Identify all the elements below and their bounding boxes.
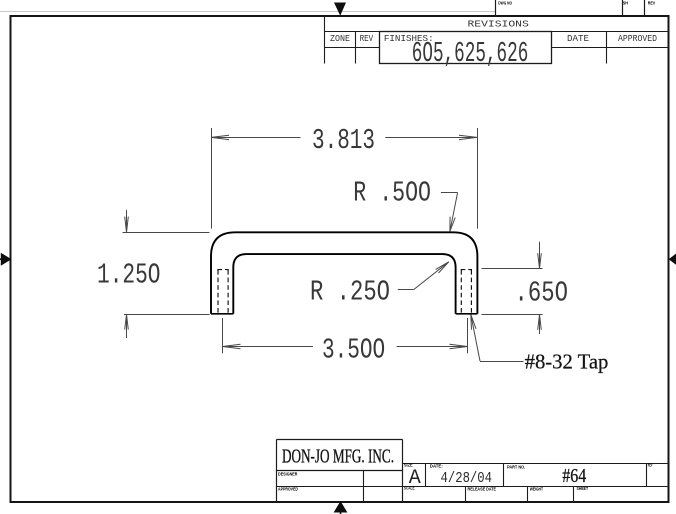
svg-text:REVISIONS: REVISIONS — [468, 19, 529, 29]
svg-text:6O5,625,626: 6O5,625,626 — [412, 37, 529, 70]
left tapped hole (hidden lines) — [217, 270, 228, 314]
svg-text:REV: REV — [648, 1, 656, 7]
right tapped hole (hidden lines) — [461, 270, 472, 314]
svg-text:WEIGHT: WEIGHT — [530, 487, 543, 493]
svg-text:DATE: DATE — [567, 34, 589, 44]
handle outer contour — [211, 232, 477, 313]
right section top line — [403, 463, 669, 465]
date-approved divider — [606, 32, 608, 64]
svg-text:RELEASE DATE: RELEASE DATE — [468, 487, 497, 493]
svg-text:3.813: 3.813 — [312, 124, 375, 157]
svg-text:DESIGNER: DESIGNER — [278, 471, 298, 477]
revisions table left edge — [324, 16, 326, 64]
right centering arrow — [669, 254, 676, 265]
svg-text:REV: REV — [360, 34, 374, 44]
dimension 1.250 — [123, 210, 210, 338]
svg-text:DATE:: DATE: — [430, 464, 443, 470]
finishes overlay box — [380, 32, 552, 64]
size-date divider — [425, 464, 427, 487]
don-jo box top — [277, 439, 403, 441]
top centering arrow — [334, 3, 346, 16]
dimension .650 — [482, 242, 543, 334]
leader R .500 — [441, 193, 458, 232]
leader R .250 — [398, 262, 449, 290]
svg-text:.65O: .65O — [515, 277, 569, 310]
svg-text:DON-JO MFG. INC.: DON-JO MFG. INC. — [282, 445, 394, 467]
zone-rev divider — [355, 32, 357, 64]
scale-release divider — [465, 487, 467, 503]
dimension 3.813 — [211, 128, 478, 229]
revision row line right — [552, 47, 669, 49]
handle inner contour — [233, 254, 455, 314]
dwg-no strip left edge — [495, 0, 497, 16]
date-partno divider — [503, 464, 505, 487]
designer-date divider — [363, 471, 365, 503]
svg-text:SHEET: SHEET — [577, 486, 589, 492]
svg-text:SH: SH — [623, 1, 629, 7]
dwg-no strip divider REV — [644, 0, 646, 16]
svg-text:4/28/04: 4/28/04 — [441, 470, 493, 487]
svg-text:PART NO.: PART NO. — [507, 464, 525, 470]
partno-rev divider — [646, 464, 648, 487]
svg-text:ZONE: ZONE — [330, 34, 350, 44]
svg-text:APPROVED: APPROVED — [618, 34, 657, 44]
title block center divider — [402, 439, 404, 502]
title block row line — [277, 486, 669, 488]
weight-sheet divider — [573, 487, 575, 503]
revision row line left — [325, 47, 380, 49]
svg-text:#64: #64 — [562, 465, 586, 487]
don-jo box bottom — [277, 470, 403, 472]
leader #8-32 tap — [471, 315, 524, 362]
svg-text:3.5OO: 3.5OO — [322, 333, 385, 366]
svg-text:DWG NO: DWG NO — [498, 1, 512, 7]
svg-text:APPROVED: APPROVED — [278, 486, 298, 492]
svg-text:R .25O: R .25O — [310, 276, 390, 309]
svg-text:REV: REV — [648, 463, 653, 469]
paper edge (faint top line) — [0, 11, 496, 13]
svg-text:SCALE: SCALE — [404, 485, 415, 491]
right leg bottom edge — [456, 313, 478, 315]
dimension 3.500 — [223, 318, 468, 353]
dwg-no strip divider SH — [622, 0, 624, 16]
svg-text:1.25O: 1.25O — [97, 258, 161, 291]
release-weight divider — [527, 487, 529, 503]
title block left edge — [276, 440, 278, 503]
left leg bottom edge — [211, 313, 233, 315]
left centering arrow — [0, 254, 11, 265]
svg-text:R .5OO: R .5OO — [353, 177, 431, 210]
svg-text:#8-32 Tap: #8-32 Tap — [525, 349, 609, 373]
revisions header bottom line — [325, 31, 669, 33]
bottom centering arrow — [335, 502, 347, 514]
